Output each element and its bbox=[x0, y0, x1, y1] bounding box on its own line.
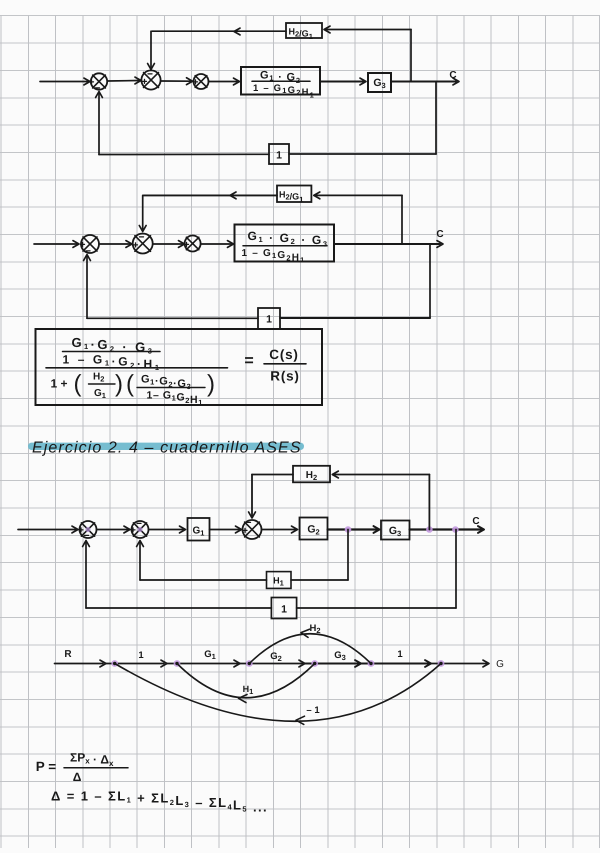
svg-text:G: G bbox=[496, 659, 504, 670]
svg-text:C: C bbox=[436, 229, 443, 240]
svg-text:C: C bbox=[472, 516, 479, 527]
svg-text:): ) bbox=[207, 371, 215, 398]
svg-text:1: 1 bbox=[266, 314, 272, 326]
svg-text:R(s): R(s) bbox=[270, 369, 299, 384]
svg-text:C: C bbox=[449, 70, 456, 81]
svg-text:R: R bbox=[64, 649, 72, 660]
svg-text:1: 1 bbox=[138, 650, 144, 661]
svg-text:(: ( bbox=[126, 371, 134, 398]
svg-text:Ejercicio 2. 4 – cuadernillo: Ejercicio 2. 4 – cuadernillo ASES bbox=[32, 440, 302, 457]
svg-text:1 +: 1 + bbox=[50, 377, 67, 391]
svg-text:): ) bbox=[115, 371, 123, 398]
svg-text:=: = bbox=[244, 353, 253, 370]
svg-text:1: 1 bbox=[276, 150, 282, 162]
svg-text:P =: P = bbox=[36, 759, 57, 774]
svg-text:Δ: Δ bbox=[73, 770, 82, 784]
svg-text:1: 1 bbox=[397, 649, 403, 660]
svg-text:1: 1 bbox=[281, 604, 287, 616]
svg-text:C(s): C(s) bbox=[269, 347, 298, 362]
svg-text:(: ( bbox=[74, 371, 82, 398]
svg-text:– 1: – 1 bbox=[306, 705, 320, 716]
